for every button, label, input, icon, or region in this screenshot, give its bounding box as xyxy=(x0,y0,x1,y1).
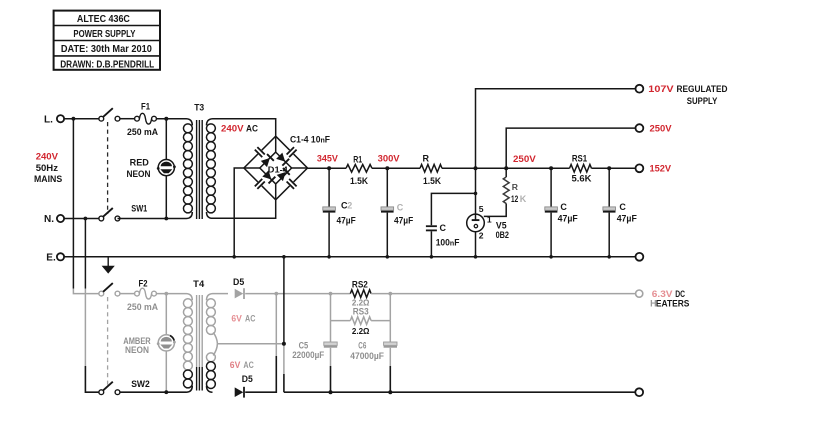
svg-text:22000µF: 22000µF xyxy=(292,350,324,360)
svg-text:240V: 240V xyxy=(36,152,59,163)
svg-text:12: 12 xyxy=(511,194,518,204)
capacitor C 47uF (right of RS1) xyxy=(603,168,616,258)
svg-text:POWER SUPPLY: POWER SUPPLY xyxy=(73,29,135,40)
resistor R1 xyxy=(346,165,372,173)
label 47000uF xyxy=(350,351,384,361)
resistor RS3 xyxy=(331,294,391,325)
wire N bus vertical xyxy=(84,217,99,393)
svg-text:SUPPLY: SUPPLY xyxy=(687,96,718,107)
label AMBER NEON xyxy=(123,336,151,355)
label SW1 xyxy=(131,204,147,214)
label R xyxy=(423,153,430,163)
label 47uF xyxy=(558,214,579,224)
svg-text:SW2: SW2 xyxy=(131,379,150,389)
svg-text:6.3V: 6.3V xyxy=(652,289,673,299)
svg-text:T3: T3 xyxy=(194,103,204,113)
label 107V REGULATED SUPPLY xyxy=(648,84,727,107)
terminal 6.3V DC xyxy=(636,290,643,297)
label C xyxy=(560,202,567,212)
svg-text:47µF: 47µF xyxy=(394,216,414,226)
svg-text:NEON: NEON xyxy=(127,169,151,179)
bridge rectifier C1-4 outer capacitor diamond xyxy=(244,136,308,200)
switch SW2 pole A xyxy=(99,283,120,296)
label C2 xyxy=(341,200,352,210)
svg-text:6V: 6V xyxy=(231,313,242,323)
label C xyxy=(440,223,447,233)
svg-text:NEON: NEON xyxy=(125,345,149,355)
label V5 xyxy=(496,221,507,231)
fuse F2 xyxy=(135,288,157,299)
svg-text:300V: 300V xyxy=(378,153,401,164)
svg-text:R1: R1 xyxy=(353,155,362,165)
label 250 mA xyxy=(127,302,158,312)
wire T4 sec top to D5 xyxy=(213,293,229,295)
label SW2 xyxy=(131,379,150,389)
svg-text:47µF: 47µF xyxy=(617,214,638,224)
svg-text:2.2Ω: 2.2Ω xyxy=(352,326,370,336)
label 250 mA xyxy=(127,127,158,137)
label D1-4 xyxy=(268,164,288,174)
label 152V xyxy=(650,164,672,175)
label pin 5 xyxy=(479,204,484,214)
label 250V xyxy=(650,124,673,135)
label 6.3V DC HEATERS xyxy=(650,289,689,309)
ground arrow xyxy=(102,257,115,274)
switch SW1 gang dashed link xyxy=(107,122,109,214)
svg-text:K: K xyxy=(520,194,527,204)
svg-text:2: 2 xyxy=(479,230,484,240)
label R1 xyxy=(353,155,362,165)
svg-text:C: C xyxy=(619,202,626,212)
svg-text:C5: C5 xyxy=(299,340,309,350)
wire L rail xyxy=(64,118,99,120)
mains label 240V 50Hz MAINS xyxy=(34,152,63,185)
neon lamp AMBER NEON xyxy=(157,294,176,395)
svg-text:F1: F1 xyxy=(141,102,150,112)
switch SW2 gang dashed link xyxy=(107,297,109,388)
label 240V AC xyxy=(221,124,258,135)
svg-text:RED: RED xyxy=(130,158,150,168)
svg-text:SW1: SW1 xyxy=(131,204,147,214)
svg-text:T4: T4 xyxy=(193,279,204,289)
switch SW2 pole B xyxy=(99,382,120,395)
svg-text:DRAWN: D.B.PENDRILL: DRAWN: D.B.PENDRILL xyxy=(60,59,154,70)
svg-text:DATE: 30th Mar 2010: DATE: 30th Mar 2010 xyxy=(61,44,152,55)
label 100nF xyxy=(436,237,460,247)
wire ground riser to heater minus xyxy=(282,255,286,392)
terminal 107V xyxy=(636,85,644,93)
label 2.2 ohm xyxy=(352,297,370,307)
resistor R xyxy=(420,165,442,173)
label 1.5K xyxy=(423,176,441,186)
label 47uF xyxy=(394,216,414,226)
label pin 2 xyxy=(479,230,484,240)
svg-text:240V: 240V xyxy=(221,124,244,135)
label 22000uF xyxy=(292,350,324,360)
label 5.6K xyxy=(572,174,593,184)
switch SW1 pole A xyxy=(99,108,120,121)
label RS3 xyxy=(353,307,369,317)
label C6 xyxy=(358,340,366,350)
svg-text:2: 2 xyxy=(347,200,352,210)
svg-text:RS3: RS3 xyxy=(353,307,369,317)
svg-text:C: C xyxy=(397,203,404,213)
wire N rail xyxy=(64,218,99,220)
svg-text:6V: 6V xyxy=(230,360,241,370)
svg-text:250 mA: 250 mA xyxy=(127,302,158,312)
label 12K xyxy=(511,194,527,204)
label 47uF xyxy=(617,214,638,224)
label T4 xyxy=(193,279,204,289)
label RED NEON xyxy=(127,158,151,179)
svg-text:D5: D5 xyxy=(233,277,244,287)
svg-text:C1-4 10nF: C1-4 10nF xyxy=(290,135,330,145)
svg-text:152V: 152V xyxy=(650,164,672,175)
svg-text:DC: DC xyxy=(675,289,685,299)
svg-text:1.5K: 1.5K xyxy=(423,176,441,186)
svg-text:R: R xyxy=(512,182,519,192)
resistor RS2 xyxy=(329,290,393,298)
svg-text:C6: C6 xyxy=(358,340,366,350)
label pin 1 xyxy=(487,215,492,225)
wire T4 center tap xyxy=(217,343,284,345)
wire T3 secondary top to bridge xyxy=(213,119,276,137)
svg-text:D1-4: D1-4 xyxy=(268,164,288,174)
svg-text:47µF: 47µF xyxy=(337,216,357,226)
wire E rail xyxy=(64,256,636,258)
svg-text:5: 5 xyxy=(479,204,484,214)
label D5 (top) xyxy=(233,277,244,287)
svg-text:47000µF: 47000µF xyxy=(350,351,384,361)
svg-text:L.: L. xyxy=(44,114,53,125)
bridge rectifier D1-4 inner diode diamond xyxy=(244,136,308,200)
diode D5 (bottom) xyxy=(235,387,244,398)
label 250V xyxy=(513,154,536,165)
label 300V xyxy=(378,153,401,164)
wire SW2 to T4 primary bottom xyxy=(120,391,187,393)
svg-text:250V: 250V xyxy=(513,154,536,165)
neon lamp RED NEON xyxy=(157,119,176,221)
label F1 xyxy=(141,102,150,112)
label 2.2 ohm xyxy=(352,326,370,336)
terminal E xyxy=(46,252,64,263)
svg-text:345V: 345V xyxy=(317,153,339,164)
svg-text:RS1: RS1 xyxy=(572,154,587,164)
label T3 xyxy=(194,103,204,113)
label 6V AC (bottom) xyxy=(230,360,254,370)
title block xyxy=(54,11,160,70)
svg-text:C: C xyxy=(440,223,447,233)
svg-text:MAINS: MAINS xyxy=(34,174,63,185)
wire SW1 to F1 xyxy=(120,118,135,120)
tube V5 0B2 xyxy=(467,168,485,258)
svg-text:RS2: RS2 xyxy=(352,280,368,290)
wire F1 to T3 xyxy=(156,117,186,121)
svg-text:R: R xyxy=(423,153,430,163)
svg-text:EATERS: EATERS xyxy=(656,299,690,309)
wire F2 to T4 xyxy=(156,292,186,296)
terminal 250V xyxy=(636,124,644,132)
svg-text:AC: AC xyxy=(243,360,254,370)
transformer T4 xyxy=(183,294,217,393)
svg-text:REGULATED: REGULATED xyxy=(677,84,728,95)
label R (12K) xyxy=(512,182,519,192)
label 1.5K xyxy=(350,176,368,186)
label D5 (bottom) xyxy=(242,374,253,384)
wire 345V rail xyxy=(308,166,636,170)
svg-text:250V: 250V xyxy=(650,124,673,135)
wire heater minus rail xyxy=(284,390,636,394)
diode D5 (top) xyxy=(235,288,244,299)
svg-text:AC: AC xyxy=(245,313,256,323)
wire 107V output line xyxy=(476,89,636,169)
wire bridge negative to E rail xyxy=(232,168,244,259)
svg-text:N.: N. xyxy=(44,214,54,225)
resistor RS1 xyxy=(570,165,592,173)
svg-text:107V: 107V xyxy=(648,84,674,95)
svg-text:E.: E. xyxy=(46,252,56,263)
wire L bus vertical xyxy=(72,117,99,294)
svg-text:250 mA: 250 mA xyxy=(127,127,158,137)
capacitor C5 xyxy=(324,321,337,393)
svg-text:AC: AC xyxy=(246,124,258,135)
svg-text:F2: F2 xyxy=(139,278,148,288)
label RS2 xyxy=(352,280,368,290)
svg-text:1.5K: 1.5K xyxy=(350,176,368,186)
label 47uF xyxy=(337,216,357,226)
terminal L xyxy=(44,114,64,125)
label F2 xyxy=(139,278,148,288)
wire plus bus riser gray part xyxy=(275,294,277,356)
capacitor C 100nF xyxy=(426,192,477,259)
svg-text:C: C xyxy=(560,202,567,212)
capacitor C2 xyxy=(323,168,336,258)
label C1-4 10nF xyxy=(290,135,330,145)
resistor R 12K xyxy=(484,168,509,216)
terminal N xyxy=(44,214,64,225)
wire SW2 to F2 xyxy=(120,293,135,295)
svg-text:47µF: 47µF xyxy=(558,214,579,224)
wire D5 to heater plus bus xyxy=(245,292,330,296)
terminal 152V xyxy=(636,164,644,172)
switch SW1 pole B xyxy=(99,208,120,221)
label 0B2 xyxy=(496,230,509,240)
label 345V xyxy=(317,153,339,164)
label RS1 xyxy=(572,154,587,164)
label 6V AC (top) xyxy=(231,313,255,323)
svg-text:ALTEC 436C: ALTEC 436C xyxy=(77,14,130,25)
label C xyxy=(619,202,626,212)
terminal common E rail xyxy=(636,253,644,261)
capacitor C 47uF (left of RS1) xyxy=(545,168,558,258)
transformer T3 xyxy=(183,119,215,219)
wire T3 secondary bottom to bridge xyxy=(213,200,276,219)
label C5 xyxy=(299,340,309,350)
capacitor C6 xyxy=(384,321,397,393)
wire heater plus to output xyxy=(390,293,635,295)
fuse F1 xyxy=(135,113,157,124)
svg-text:5.6K: 5.6K xyxy=(572,174,593,184)
svg-text:50Hz: 50Hz xyxy=(36,163,58,174)
capacitor C (300V) xyxy=(381,168,394,258)
wire 250V output line xyxy=(506,128,635,168)
wire D5 bottom to plus bus riser xyxy=(245,356,276,392)
svg-text:100nF: 100nF xyxy=(436,237,460,247)
wire N to T3 primary xyxy=(118,218,187,220)
label C xyxy=(397,203,404,213)
svg-text:0B2: 0B2 xyxy=(496,230,509,240)
svg-text:D5: D5 xyxy=(242,374,253,384)
terminal heater minus xyxy=(635,388,643,396)
